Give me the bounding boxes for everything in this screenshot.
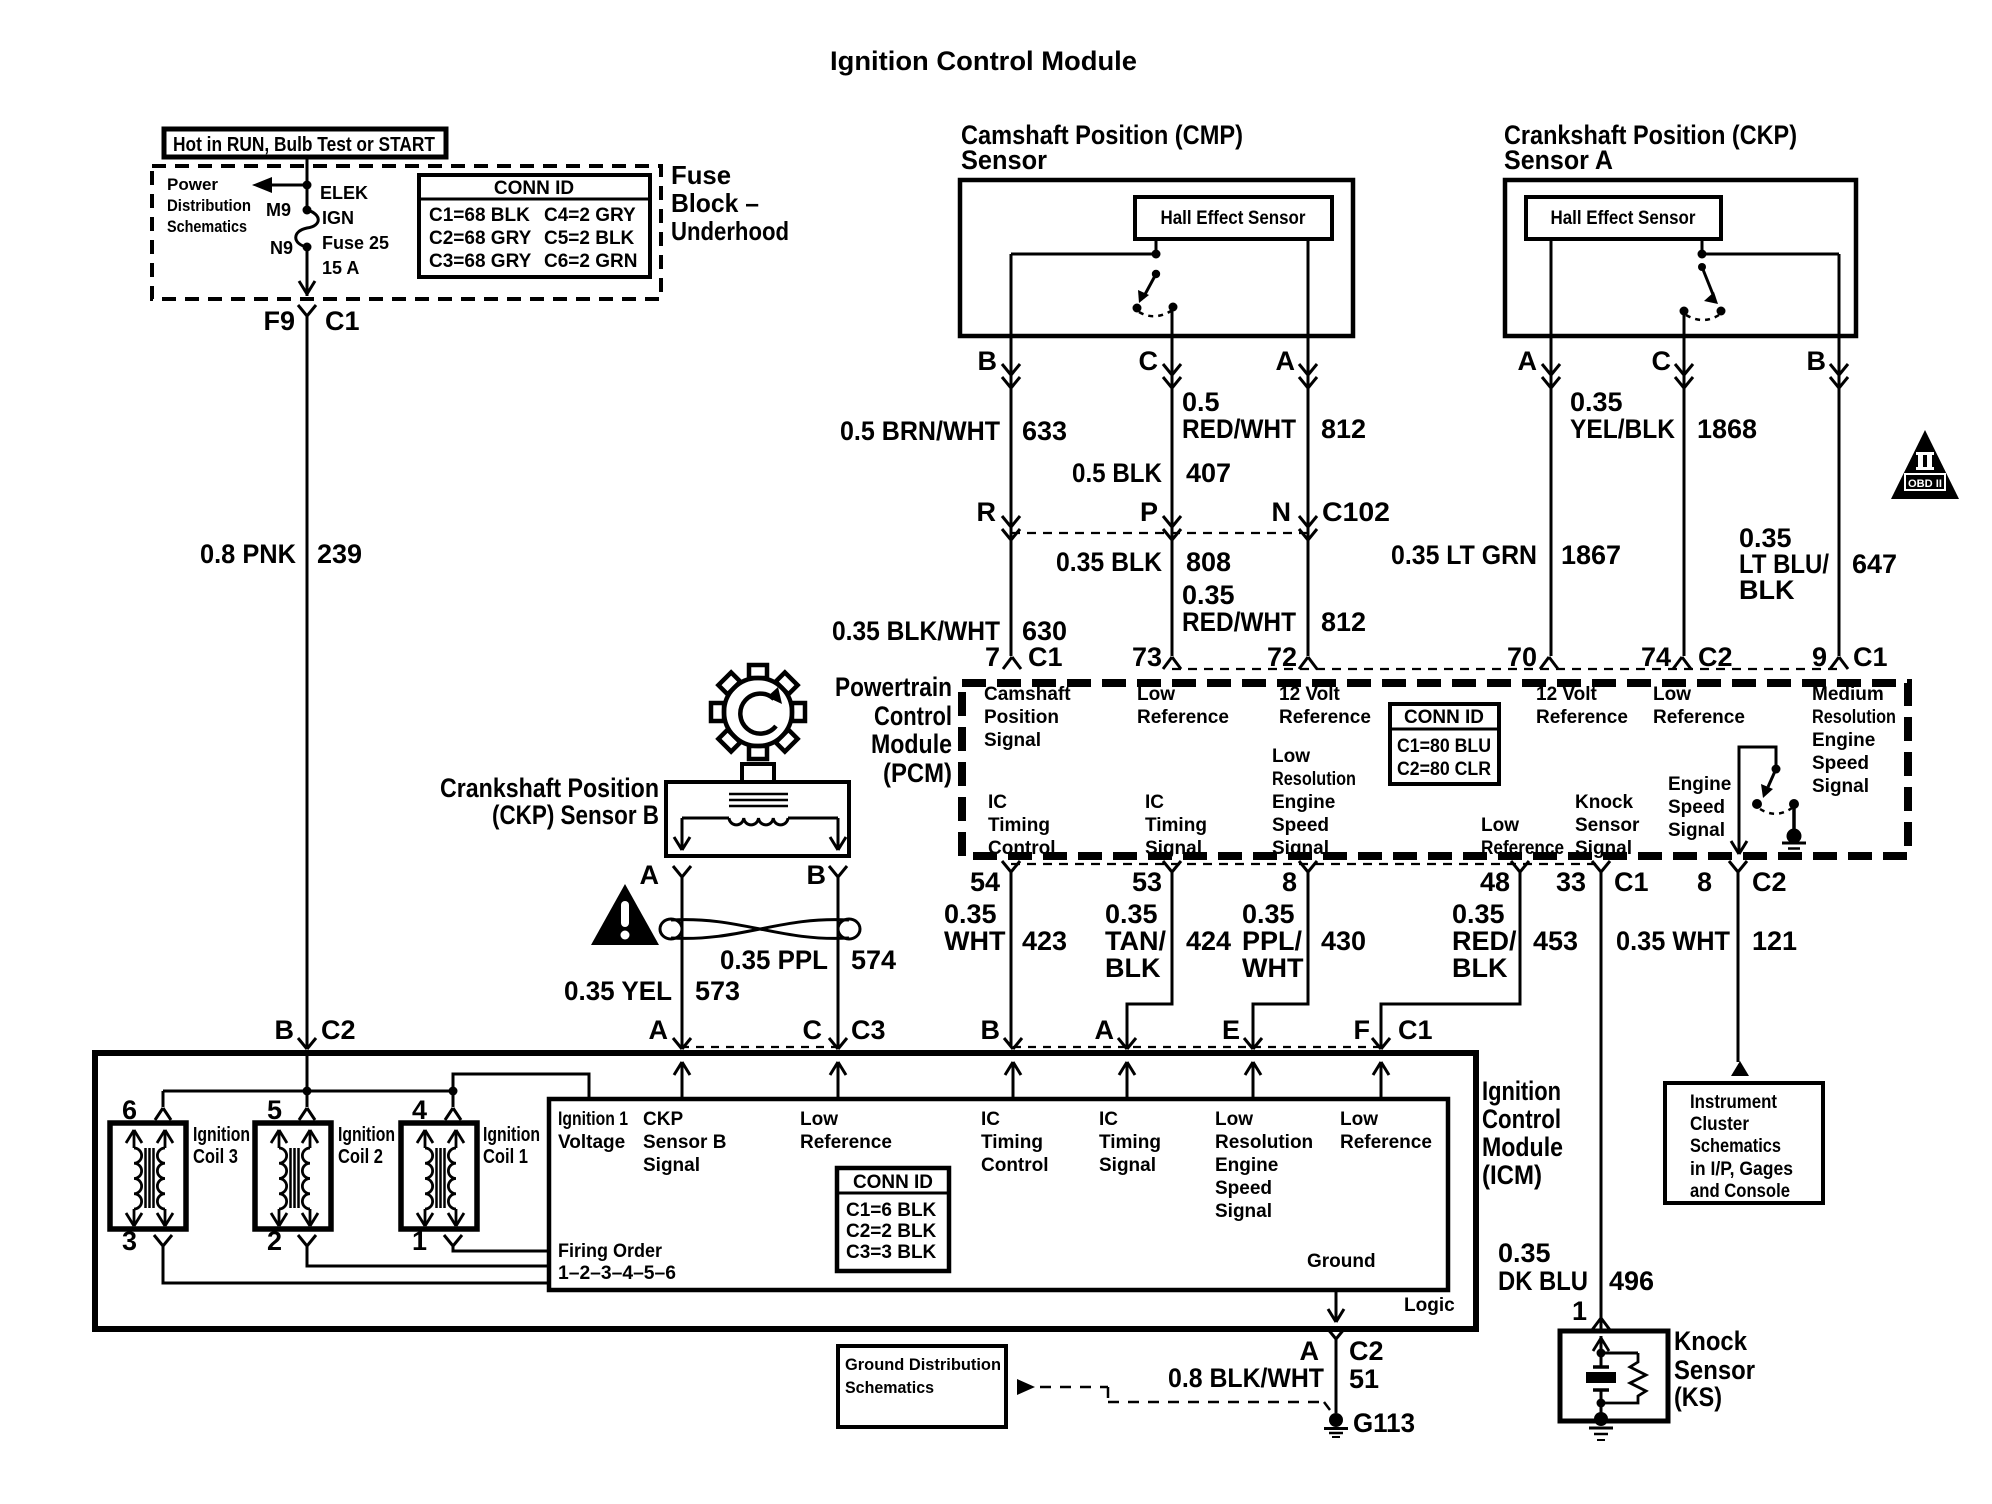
PCM connector pin 54 xyxy=(1002,861,1011,872)
svg-text:CONN ID: CONN ID xyxy=(853,1172,933,1193)
ICM connector pin B C2 xyxy=(298,1038,307,1049)
svg-text:Schematics: Schematics xyxy=(845,1378,934,1397)
ICM signal arrow x682 xyxy=(681,1062,684,1099)
svg-text:0.35: 0.35 xyxy=(944,899,997,929)
wire 1868 0.35 YEL/BLK xyxy=(1550,336,1553,656)
svg-text:and Console: and Console xyxy=(1690,1181,1790,1202)
svg-text:Coil 2: Coil 2 xyxy=(338,1146,383,1168)
svg-text:0.8 PNK: 0.8 PNK xyxy=(200,539,296,569)
wire 121 0.35 WHT engine speed xyxy=(1737,872,1740,1062)
svg-text:C2: C2 xyxy=(321,1015,356,1045)
PCM connector pin 53 xyxy=(1163,861,1172,872)
ignition coil 2 xyxy=(255,1123,331,1229)
svg-text:M9: M9 xyxy=(266,200,291,220)
svg-text:Low: Low xyxy=(1215,1109,1253,1130)
svg-text:574: 574 xyxy=(851,945,896,975)
svg-text:(CKP) Sensor B: (CKP) Sensor B xyxy=(492,800,659,830)
svg-text:Resolution: Resolution xyxy=(1215,1132,1313,1153)
svg-text:C102: C102 xyxy=(1322,497,1390,527)
svg-text:Ground: Ground xyxy=(1307,1251,1376,1272)
svg-text:Sensor: Sensor xyxy=(1674,1355,1755,1385)
svg-text:407: 407 xyxy=(1186,458,1231,488)
svg-text:Signal: Signal xyxy=(1145,838,1202,859)
svg-text:BLK: BLK xyxy=(1739,575,1795,605)
hall effect sensor box CMP xyxy=(1135,197,1332,239)
CKP A sensor box xyxy=(1505,180,1856,336)
ignition coil 1 xyxy=(401,1123,477,1229)
ICM connector pin F C1 xyxy=(1372,1038,1381,1049)
svg-text:Speed: Speed xyxy=(1272,815,1329,836)
svg-text:OBD II: OBD II xyxy=(1908,478,1942,490)
PCM connector pin 8 C1 xyxy=(1299,861,1308,872)
ground distribution schematics box xyxy=(838,1346,1006,1427)
svg-text:C1=6 BLK: C1=6 BLK xyxy=(846,1200,937,1221)
PCM conn id table xyxy=(1390,704,1499,784)
svg-text:PPL/: PPL/ xyxy=(1242,926,1303,956)
svg-text:Ignition: Ignition xyxy=(193,1124,250,1146)
PCM connector dashed line xyxy=(1172,668,1839,670)
svg-text:Firing Order: Firing Order xyxy=(558,1241,663,1262)
svg-text:WHT: WHT xyxy=(944,926,1006,956)
PCM connector pin 70 xyxy=(1540,657,1549,669)
hot in RUN label box xyxy=(164,129,446,157)
svg-text:3: 3 xyxy=(122,1226,137,1256)
svg-text:0.35: 0.35 xyxy=(1570,387,1623,417)
firing wire coil 1 xyxy=(453,1246,549,1251)
svg-text:2: 2 xyxy=(267,1226,282,1256)
svg-text:0.35: 0.35 xyxy=(1105,899,1158,929)
svg-text:Engine: Engine xyxy=(1272,792,1335,813)
svg-text:Control: Control xyxy=(988,838,1056,859)
wire 1867 0.35 LT GRN xyxy=(1683,336,1686,656)
CMP wire pin A xyxy=(1307,239,1310,336)
ignition control module ICM box xyxy=(95,1053,1476,1329)
svg-text:54: 54 xyxy=(970,867,1000,897)
svg-text:453: 453 xyxy=(1533,926,1578,956)
svg-text:Signal: Signal xyxy=(1812,776,1869,797)
svg-text:C4=2 GRY: C4=2 GRY xyxy=(544,205,636,226)
svg-text:Cluster: Cluster xyxy=(1690,1114,1750,1135)
knock sensor internals xyxy=(1600,1336,1603,1353)
svg-text:573: 573 xyxy=(695,976,740,1006)
svg-text:812: 812 xyxy=(1321,607,1366,637)
svg-text:Schematics: Schematics xyxy=(167,217,247,236)
svg-text:12 Volt: 12 Volt xyxy=(1536,684,1598,705)
svg-text:Low: Low xyxy=(1653,684,1691,705)
wire from hot box to fuse xyxy=(306,157,309,206)
svg-text:Schematics: Schematics xyxy=(1690,1136,1781,1157)
svg-text:Engine: Engine xyxy=(1812,730,1875,751)
CMP sensor box xyxy=(960,180,1353,336)
svg-text:Block –: Block – xyxy=(671,188,759,218)
svg-text:Hot in RUN, Bulb Test or START: Hot in RUN, Bulb Test or START xyxy=(173,134,435,156)
svg-text:0.35: 0.35 xyxy=(1498,1238,1551,1268)
CKP A hall right wire xyxy=(1701,239,1704,254)
svg-text:F: F xyxy=(1354,1015,1371,1045)
windings coil 1 xyxy=(435,1148,438,1208)
svg-text:C1: C1 xyxy=(1028,642,1063,672)
ICM connector dashed lines xyxy=(681,1046,838,1048)
svg-text:G113: G113 xyxy=(1353,1408,1415,1438)
svg-text:RED/WHT: RED/WHT xyxy=(1182,607,1296,637)
powertrain control module PCM dashed box xyxy=(962,683,1908,856)
CMP wire pin C xyxy=(1171,307,1174,336)
ICM signal arrow x1381 xyxy=(1380,1062,1383,1099)
PCM connector pin 74 xyxy=(1673,657,1682,669)
svg-text:A: A xyxy=(640,860,660,890)
PCM bottom connector dashed line xyxy=(1011,863,1601,865)
svg-text:(PCM): (PCM) xyxy=(883,758,952,788)
svg-text:P: P xyxy=(1140,497,1158,527)
ICM connector pin A C3 xyxy=(673,1038,682,1049)
svg-text:Power: Power xyxy=(167,175,218,194)
svg-text:Sensor: Sensor xyxy=(961,145,1047,175)
svg-text:IC: IC xyxy=(1099,1109,1118,1130)
svg-text:808: 808 xyxy=(1186,547,1231,577)
svg-text:B: B xyxy=(978,346,998,376)
svg-text:1: 1 xyxy=(1572,1296,1587,1326)
svg-text:Signal: Signal xyxy=(1272,838,1329,859)
PCM connector pin 9 xyxy=(1830,657,1839,669)
svg-text:Ignition 1: Ignition 1 xyxy=(558,1109,628,1130)
svg-text:N9: N9 xyxy=(270,238,293,258)
svg-text:Resolution: Resolution xyxy=(1272,769,1356,790)
ICM signal arrow x1253 xyxy=(1252,1062,1255,1099)
svg-text:C5=2 BLK: C5=2 BLK xyxy=(544,228,635,249)
PCM connector pin 48 xyxy=(1511,861,1520,872)
ground G113 xyxy=(1329,1413,1343,1427)
output connector coil 2 xyxy=(298,1235,307,1246)
CKP B core xyxy=(729,793,788,796)
svg-text:A: A xyxy=(1276,346,1296,376)
svg-text:7: 7 xyxy=(985,642,1000,672)
svg-text:C: C xyxy=(1139,346,1159,376)
svg-text:Ignition: Ignition xyxy=(483,1124,540,1146)
svg-text:E: E xyxy=(1222,1015,1240,1045)
svg-text:(ICM): (ICM) xyxy=(1482,1160,1542,1190)
svg-text:C1=80 BLU: C1=80 BLU xyxy=(1397,736,1491,757)
svg-text:Fuse: Fuse xyxy=(671,160,731,190)
CKP B pin A connector xyxy=(673,866,682,877)
feed stub coil 1 xyxy=(452,1091,455,1107)
svg-text:Ignition: Ignition xyxy=(1482,1076,1561,1106)
svg-text:70: 70 xyxy=(1507,642,1537,672)
svg-text:B: B xyxy=(275,1015,295,1045)
hall effect sensor box CKP A xyxy=(1526,197,1721,239)
svg-text:0.35: 0.35 xyxy=(1242,899,1295,929)
svg-text:Module: Module xyxy=(871,729,952,759)
ground distribution arrow xyxy=(1017,1379,1035,1395)
wire 423 0.35 WHT xyxy=(1010,872,1013,1047)
svg-text:72: 72 xyxy=(1267,642,1297,672)
svg-text:424: 424 xyxy=(1186,926,1231,956)
svg-text:Signal: Signal xyxy=(1215,1201,1272,1222)
svg-text:C2: C2 xyxy=(1349,1336,1384,1366)
svg-text:Reference: Reference xyxy=(1653,707,1745,728)
svg-text:Underhood: Underhood xyxy=(671,216,789,246)
svg-text:Low: Low xyxy=(1137,684,1175,705)
svg-text:Control: Control xyxy=(1482,1104,1561,1134)
svg-text:Reference: Reference xyxy=(1279,707,1371,728)
svg-text:1867: 1867 xyxy=(1561,540,1621,570)
svg-text:Engine: Engine xyxy=(1668,774,1731,795)
ICM connector pin C C3 xyxy=(829,1038,838,1049)
wire 453 0.35 RED/BLK xyxy=(1381,872,1520,1047)
svg-text:C2=68 GRY: C2=68 GRY xyxy=(429,228,532,249)
ICM connector pin B C1 xyxy=(1004,1038,1013,1049)
wire 453 0.35 DK BLU knock xyxy=(1600,872,1603,1331)
CKP A wire to pin B xyxy=(1702,253,1839,256)
output connector coil 3 xyxy=(154,1235,163,1246)
svg-text:Engine: Engine xyxy=(1215,1155,1278,1176)
fuse 25 symbol xyxy=(303,206,312,215)
svg-text:BLK: BLK xyxy=(1105,953,1161,983)
svg-text:74: 74 xyxy=(1641,642,1671,672)
wire 647 0.35 LT BLU/BLK xyxy=(1838,336,1841,656)
CKP A switch xyxy=(1698,263,1706,271)
svg-text:Coil 3: Coil 3 xyxy=(193,1146,238,1168)
svg-text:15 A: 15 A xyxy=(322,258,359,278)
svg-text:IC: IC xyxy=(988,792,1007,813)
svg-text:Signal: Signal xyxy=(643,1155,700,1176)
reluctor wheel gear xyxy=(711,665,805,759)
svg-text:IGN: IGN xyxy=(322,208,354,228)
ICM logic box xyxy=(549,1099,1448,1290)
svg-text:121: 121 xyxy=(1752,926,1797,956)
svg-text:Low: Low xyxy=(1340,1109,1378,1130)
svg-text:A: A xyxy=(1518,346,1538,376)
svg-text:496: 496 xyxy=(1609,1266,1654,1296)
ICM signal arrow x838 xyxy=(837,1062,840,1099)
feed stub coil 2 xyxy=(306,1091,309,1107)
svg-text:12 Volt: 12 Volt xyxy=(1279,684,1341,705)
svg-text:C2=80 CLR: C2=80 CLR xyxy=(1397,759,1491,780)
CMP wire to pin B xyxy=(1011,253,1156,256)
svg-text:33: 33 xyxy=(1556,867,1586,897)
svg-text:C3=68 GRY: C3=68 GRY xyxy=(429,251,532,272)
svg-text:C: C xyxy=(1652,346,1672,376)
svg-text:in I/P, Gages: in I/P, Gages xyxy=(1690,1159,1793,1180)
svg-text:1–2–3–4–5–6: 1–2–3–4–5–6 xyxy=(558,1263,676,1284)
windings coil 3 xyxy=(144,1148,147,1208)
svg-text:0.5 BLK: 0.5 BLK xyxy=(1072,458,1162,488)
svg-text:Signal: Signal xyxy=(1668,820,1725,841)
svg-text:A: A xyxy=(1095,1015,1115,1045)
PCM connector pin 8 C2 xyxy=(1729,861,1738,872)
svg-text:Signal: Signal xyxy=(1099,1155,1156,1176)
svg-text:8: 8 xyxy=(1282,867,1297,897)
svg-text:Reference: Reference xyxy=(800,1132,892,1153)
svg-text:CKP: CKP xyxy=(643,1109,683,1130)
svg-text:6: 6 xyxy=(122,1095,137,1125)
svg-text:BLK: BLK xyxy=(1452,953,1508,983)
svg-text:Speed: Speed xyxy=(1215,1178,1272,1199)
output connector coil 1 xyxy=(444,1235,453,1246)
svg-text:Timing: Timing xyxy=(981,1132,1043,1153)
CKP B sensor stem xyxy=(742,764,774,782)
svg-text:Ignition Control Module: Ignition Control Module xyxy=(830,46,1137,76)
svg-text:8: 8 xyxy=(1697,867,1712,897)
svg-text:C1: C1 xyxy=(325,306,360,336)
svg-text:0.35 WHT: 0.35 WHT xyxy=(1616,926,1730,956)
svg-text:48: 48 xyxy=(1480,867,1510,897)
ICM connector pin A C1 xyxy=(1118,1038,1127,1049)
svg-text:(KS): (KS) xyxy=(1674,1382,1722,1412)
svg-text:R: R xyxy=(977,497,997,527)
svg-text:Hall Effect Sensor: Hall Effect Sensor xyxy=(1551,208,1697,229)
svg-text:F9: F9 xyxy=(263,306,295,336)
windings coil 2 xyxy=(289,1148,292,1208)
ground distribution dashed wire xyxy=(1040,1386,1108,1389)
svg-text:C3=3 BLK: C3=3 BLK xyxy=(846,1242,937,1263)
svg-text:A: A xyxy=(1300,1336,1320,1366)
svg-text:RED/: RED/ xyxy=(1452,926,1517,956)
CKP A wire pin A xyxy=(1550,239,1553,336)
svg-text:Hall Effect Sensor: Hall Effect Sensor xyxy=(1161,208,1307,229)
CKP B pin B connector xyxy=(829,866,838,877)
svg-text:Instrument: Instrument xyxy=(1690,1092,1778,1113)
svg-text:Camshaft: Camshaft xyxy=(984,684,1071,705)
svg-text:IC: IC xyxy=(981,1109,1000,1130)
feed stub coil 3 xyxy=(162,1091,165,1107)
CKP B pickup coil xyxy=(729,818,788,825)
wire 430 0.35 PPL/WHT xyxy=(1253,872,1308,1047)
svg-text:4: 4 xyxy=(412,1095,427,1125)
svg-text:Crankshaft Position: Crankshaft Position xyxy=(440,773,659,803)
svg-text:812: 812 xyxy=(1321,414,1366,444)
svg-text:73: 73 xyxy=(1132,642,1162,672)
svg-text:Position: Position xyxy=(984,707,1059,728)
svg-text:0.5 BRN/WHT: 0.5 BRN/WHT xyxy=(840,416,1000,446)
svg-text:Resolution: Resolution xyxy=(1812,707,1896,728)
svg-text:1: 1 xyxy=(412,1226,427,1256)
connector F9 C1 xyxy=(298,305,307,316)
firing wire coil 3 xyxy=(163,1246,549,1283)
svg-text:53: 53 xyxy=(1132,867,1162,897)
svg-text:647: 647 xyxy=(1852,549,1897,579)
svg-text:633: 633 xyxy=(1022,416,1067,446)
svg-text:C1: C1 xyxy=(1614,867,1649,897)
svg-text:Logic: Logic xyxy=(1404,1295,1455,1316)
PCM connector pin 7 xyxy=(1003,657,1012,669)
svg-text:Module: Module xyxy=(1482,1132,1563,1162)
svg-text:0.35 BLK/WHT: 0.35 BLK/WHT xyxy=(832,616,1000,646)
svg-text:Speed: Speed xyxy=(1668,797,1725,818)
svg-text:Reference: Reference xyxy=(1340,1132,1432,1153)
svg-text:TAN/: TAN/ xyxy=(1105,926,1166,956)
svg-text:Sensor B: Sensor B xyxy=(643,1132,726,1153)
svg-text:CONN ID: CONN ID xyxy=(1404,707,1484,728)
svg-text:0.5: 0.5 xyxy=(1182,387,1220,417)
svg-text:Ground Distribution: Ground Distribution xyxy=(845,1355,1001,1374)
svg-text:Signal: Signal xyxy=(984,730,1041,751)
svg-text:239: 239 xyxy=(317,539,362,569)
wire 812 0.5 RED/WHT xyxy=(1307,336,1310,656)
PCM connector pin 72 xyxy=(1299,657,1308,669)
svg-text:Distribution: Distribution xyxy=(167,196,251,215)
ICM signal arrow x1127 xyxy=(1126,1062,1129,1099)
wire 633 0.5 BRN/WHT xyxy=(1010,336,1013,656)
svg-text:DK BLU: DK BLU xyxy=(1498,1266,1588,1296)
svg-text:Powertrain: Powertrain xyxy=(835,672,952,702)
svg-text:C2: C2 xyxy=(1698,642,1733,672)
svg-text:Reference: Reference xyxy=(1481,838,1564,859)
PCM connector pin 73 xyxy=(1163,657,1172,669)
svg-text:IC: IC xyxy=(1145,792,1164,813)
svg-text:0.35: 0.35 xyxy=(1182,580,1235,610)
OBD II symbol xyxy=(1891,430,1959,499)
CKP A wire pin C xyxy=(1683,311,1686,336)
svg-text:N: N xyxy=(1272,497,1292,527)
arrow to power distribution xyxy=(270,184,307,187)
svg-text:Voltage: Voltage xyxy=(558,1132,625,1153)
svg-text:Control: Control xyxy=(981,1155,1049,1176)
svg-text:RED/WHT: RED/WHT xyxy=(1182,414,1296,444)
svg-text:C3: C3 xyxy=(851,1015,886,1045)
svg-text:C2: C2 xyxy=(1752,867,1787,897)
svg-text:Control: Control xyxy=(874,701,952,731)
svg-text:Knock: Knock xyxy=(1575,792,1634,813)
svg-text:B: B xyxy=(1807,346,1827,376)
svg-text:Signal: Signal xyxy=(1575,838,1632,859)
svg-text:Low: Low xyxy=(1272,746,1310,767)
svg-text:5: 5 xyxy=(267,1095,282,1125)
svg-text:A: A xyxy=(649,1015,669,1045)
ICM conn id table xyxy=(837,1168,949,1271)
svg-text:C1: C1 xyxy=(1398,1015,1433,1045)
wire 239 0.8 PNK xyxy=(306,316,309,1047)
svg-text:Reference: Reference xyxy=(1536,707,1628,728)
CMP hall output wire xyxy=(1155,239,1158,254)
svg-text:0.8 BLK/WHT: 0.8 BLK/WHT xyxy=(1168,1363,1324,1393)
ICM signal arrow x1013 xyxy=(1012,1062,1015,1099)
svg-text:0.35 BLK: 0.35 BLK xyxy=(1056,547,1162,577)
knock sensor KS box xyxy=(1560,1331,1668,1421)
svg-text:CONN ID: CONN ID xyxy=(494,178,574,199)
warning triangle xyxy=(591,884,659,945)
PCM internal engine speed switch xyxy=(1739,747,1776,852)
svg-text:Speed: Speed xyxy=(1812,753,1869,774)
svg-text:Coil 1: Coil 1 xyxy=(483,1146,528,1168)
svg-text:0.35: 0.35 xyxy=(1452,899,1505,929)
svg-text:WHT: WHT xyxy=(1242,953,1304,983)
svg-text:Timing: Timing xyxy=(1145,815,1207,836)
svg-text:C6=2 GRN: C6=2 GRN xyxy=(544,251,637,272)
wire 407 0.5 BLK xyxy=(1171,336,1174,656)
svg-text:51: 51 xyxy=(1349,1364,1379,1394)
svg-text:B: B xyxy=(981,1015,1001,1045)
svg-text:C1=68 BLK: C1=68 BLK xyxy=(429,205,530,226)
fuse block underhood dashed box xyxy=(152,166,661,299)
svg-text:430: 430 xyxy=(1321,926,1366,956)
ICM connector pin E C1 xyxy=(1244,1038,1253,1049)
svg-text:ELEK: ELEK xyxy=(320,183,368,203)
svg-text:0.35 YEL: 0.35 YEL xyxy=(564,976,672,1006)
svg-text:B: B xyxy=(807,860,827,890)
node M9 junction xyxy=(303,181,312,190)
svg-text:Low: Low xyxy=(800,1109,838,1130)
svg-text:Sensor A: Sensor A xyxy=(1504,145,1613,175)
svg-text:C1: C1 xyxy=(1853,642,1888,672)
ignition coil 3 xyxy=(110,1123,186,1229)
ICM 12V feed xyxy=(306,1053,309,1091)
svg-text:Medium: Medium xyxy=(1812,684,1884,705)
svg-text:9: 9 xyxy=(1812,642,1827,672)
svg-text:Fuse 25: Fuse 25 xyxy=(322,233,389,253)
CMP switch xyxy=(1152,270,1160,278)
twisted pair xyxy=(681,877,684,1047)
firing wire coil 2 xyxy=(307,1246,549,1266)
